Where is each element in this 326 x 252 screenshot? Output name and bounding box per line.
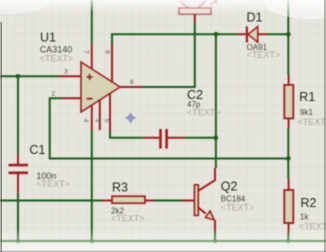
wire pin5 to C2 left (110, 132, 143, 138)
R3 pin right (145, 200, 154, 202)
R2 pin top (288, 179, 290, 190)
op-amp minus mark (87, 98, 93, 100)
wire D1 right to rail (268, 33, 289, 35)
origin marker blue (125, 113, 136, 124)
photodevice body top (179, 8, 211, 14)
resistor R1 body (284, 85, 293, 119)
photodevice pin (194, 14, 196, 22)
photodevice light arrow right (198, 1, 206, 8)
Q2 emitter arrowhead (205, 211, 214, 220)
photodevice arrow mark (211, 0, 217, 4)
R2 pin bottom (288, 223, 290, 233)
node ground/emitter (213, 239, 217, 243)
R3 pin left (102, 200, 112, 202)
node ground/C1 (16, 239, 20, 243)
resistor R3 body (112, 196, 145, 203)
op-amp plus mark (87, 74, 93, 80)
C1 pin top (17, 154, 19, 164)
capacitor C2 plates (161, 129, 167, 149)
pin 2 stub (62, 97, 82, 99)
node junction C2/mid column (214, 136, 219, 141)
C2 pin left (143, 137, 159, 139)
Q2 collector (199, 168, 216, 191)
wire C1 column lower (17, 193, 19, 241)
pin 8 stub (111, 44, 113, 82)
node junction top-rail/mid column (214, 32, 219, 37)
resistor R2 body (284, 190, 293, 223)
op-amp U1 body (81, 62, 120, 112)
R1 pin top (288, 75, 290, 85)
Q2 base pin (183, 200, 195, 202)
Q2 emitter (198, 208, 206, 214)
wire emitter down (214, 231, 216, 242)
wire C2 right (185, 137, 216, 139)
wire pin2 feedback (50, 98, 289, 158)
pin 7 stub (91, 44, 93, 70)
node ground/right rail (286, 239, 290, 243)
wire ground bottom (0, 240, 326, 242)
C1 pin bottom (17, 174, 19, 193)
wire photodiode column to output (143, 23, 195, 88)
diode D1 triangle (248, 27, 258, 43)
capacitor C1 plates (9, 165, 29, 173)
wire pin8 to top rail (112, 34, 238, 44)
photodevice light arrow left (180, 1, 188, 8)
pin 5 stub (109, 94, 111, 132)
transistor Q2 base bar (194, 185, 198, 216)
pin 1 stub (99, 100, 101, 130)
node junction pin3/C1 (16, 74, 21, 79)
wire pin3 net horizontal (0, 75, 60, 77)
node junction top-rail/right rail (286, 32, 291, 37)
D1 pin left (238, 33, 246, 35)
wire base/R3 net (0, 200, 183, 202)
wire pin4 column down (91, 130, 93, 241)
D1 pin right (258, 33, 268, 35)
pin 6 stub (119, 86, 143, 88)
diode D1 cathode bar (246, 26, 248, 42)
wire pin7 supply up (91, 0, 93, 44)
node ground/pin4 (90, 239, 94, 243)
pin 3 stub (60, 75, 82, 77)
wire C1 column upper (17, 76, 19, 154)
pin 4 stub (91, 105, 93, 130)
node junction feedback/right rail (286, 156, 291, 161)
wire right rail column (287, 0, 289, 241)
Q2 emitter down pin (214, 220, 216, 231)
C2 pin right (168, 137, 185, 139)
R1 pin bottom (288, 118, 290, 128)
wire mid column (215, 34, 217, 168)
